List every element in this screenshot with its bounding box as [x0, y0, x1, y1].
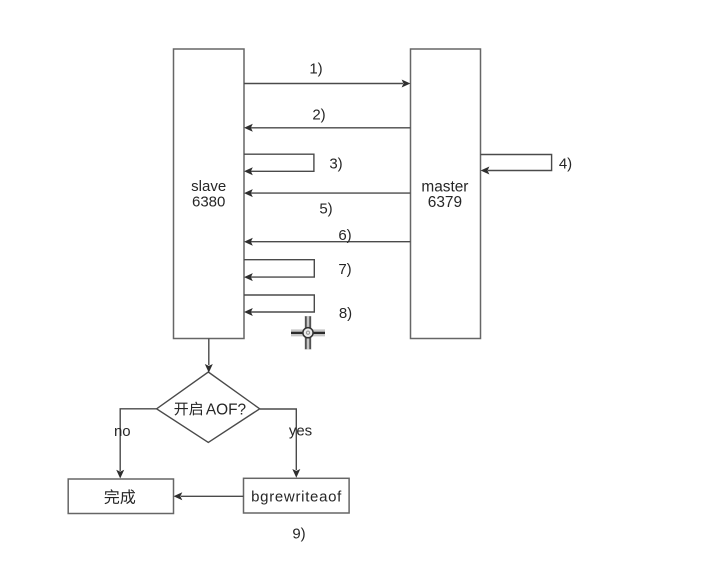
- svg-text:6): 6): [338, 227, 351, 244]
- box bgrewriteaof: [244, 478, 350, 513]
- svg-text:AOF?: AOF?: [206, 401, 246, 418]
- wire yes-branch to bgrewriteaof: [260, 409, 312, 478]
- crosshair move cursor icon: [291, 316, 325, 350]
- svg-text:3): 3): [329, 155, 342, 172]
- svg-text:7): 7): [338, 261, 351, 278]
- svg-text:bgrewriteaof: bgrewriteaof: [251, 489, 342, 506]
- box master 6379: [411, 49, 481, 339]
- svg-text:yes: yes: [289, 423, 312, 440]
- svg-text:4): 4): [559, 155, 572, 172]
- svg-text:5): 5): [319, 201, 332, 218]
- svg-text:1): 1): [309, 61, 322, 78]
- svg-text:8): 8): [339, 305, 352, 322]
- wire slave to decision diamond: [205, 339, 213, 373]
- arrow 4 self-loop on master: [481, 155, 573, 175]
- decision diamond 开启 AOF?: [157, 372, 260, 442]
- svg-text:slave: slave: [191, 178, 226, 195]
- svg-text:master: master: [421, 178, 468, 195]
- svg-text:2): 2): [312, 107, 325, 124]
- arrow 7 self-loop on slave: [244, 260, 352, 281]
- arrow 6 master to slave: [244, 227, 410, 246]
- svg-text:no: no: [114, 423, 131, 440]
- arrow bgrewriteaof to 完成: [174, 492, 244, 500]
- label 9: [292, 526, 305, 543]
- arrow 1 slave to master: [244, 61, 410, 88]
- svg-text:6380: 6380: [192, 194, 225, 211]
- arrow 2 master to slave: [244, 107, 410, 132]
- svg-text:9): 9): [292, 526, 305, 543]
- arrow 8 self-loop on slave: [244, 295, 352, 322]
- box 完成: [68, 479, 173, 514]
- wire no-branch to 完成: [114, 409, 157, 479]
- svg-text:6379: 6379: [428, 194, 462, 211]
- arrow 3 self-loop on slave: [244, 154, 343, 175]
- arrow 5 master to slave: [244, 189, 410, 217]
- box slave 6380: [174, 49, 245, 339]
